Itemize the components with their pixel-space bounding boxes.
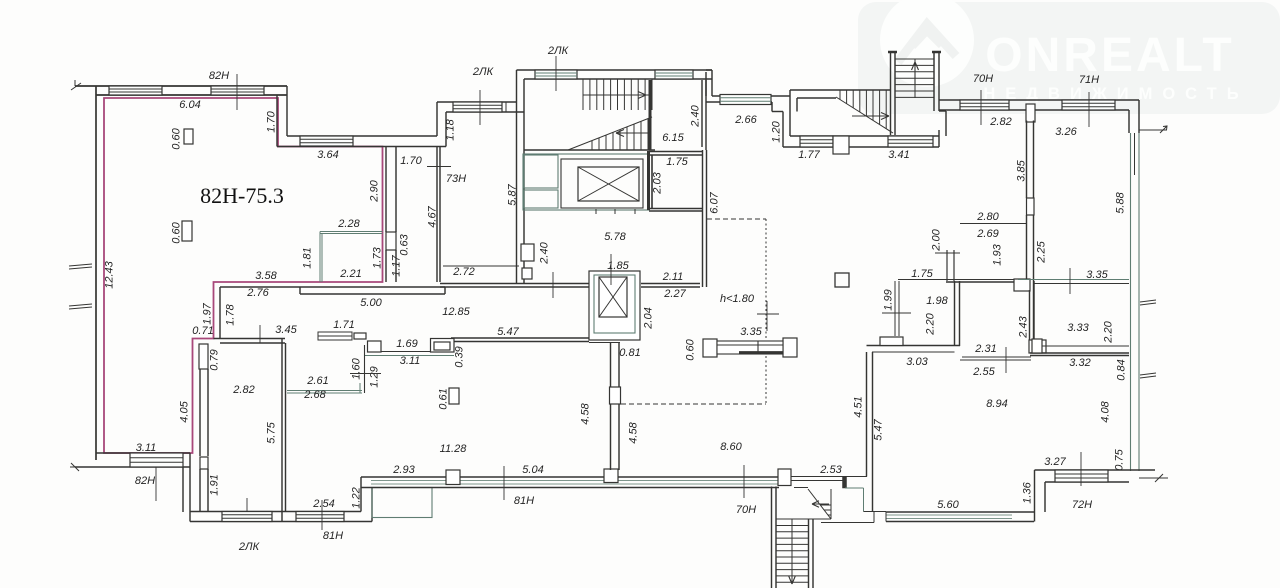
pier y281 [1014, 279, 1030, 291]
room 2.31 walls [1029, 290, 1031, 340]
dim tick 2LK-1 [479, 90, 481, 125]
tick 81H [503, 466, 505, 500]
door rect 0.63 [386, 232, 396, 250]
elevator1 bottom ticks [595, 209, 597, 214]
closet walls 2.28 [320, 231, 383, 233]
room 2.82 top wall [214, 338, 286, 340]
svg-text:5.00: 5.00 [360, 297, 382, 309]
counter thick line [739, 351, 783, 354]
stair5 walls [771, 487, 773, 588]
room 2.82 west wall + doors [219, 287, 221, 339]
room 2.31 sill top [962, 356, 1031, 358]
svg-text:1.97: 1.97 [202, 302, 214, 324]
path to 5.60 band [845, 487, 864, 489]
tick 1.85 [610, 254, 612, 285]
svg-text:1.29: 1.29 [369, 366, 381, 387]
dim tick 71H [1088, 92, 1090, 127]
svg-text:3.26: 3.26 [1055, 126, 1077, 138]
vent rect lower [182, 221, 192, 241]
svg-text:81Н: 81Н [323, 530, 343, 542]
svg-text:1.91: 1.91 [209, 474, 221, 495]
svg-text:2.54: 2.54 [312, 498, 334, 510]
wall 2.80 [960, 223, 1027, 225]
stair4 up arrow [912, 62, 919, 85]
svg-text:3.64: 3.64 [317, 149, 338, 161]
svg-text:5.04: 5.04 [522, 464, 543, 476]
svg-text:2.55: 2.55 [972, 366, 995, 378]
svg-text:2.43: 2.43 [1018, 315, 1030, 338]
notch west of stair1 [505, 102, 507, 112]
svg-text:12.43: 12.43 [104, 260, 116, 288]
svg-text:0.39: 0.39 [454, 346, 466, 367]
wall 72H top [1035, 469, 1156, 471]
window 2.66 [720, 95, 771, 105]
right wall ticks [1140, 300, 1156, 305]
svg-text:73Н: 73Н [446, 173, 466, 185]
svg-text:0.60: 0.60 [171, 221, 183, 243]
tick 1.99 [882, 312, 911, 314]
svg-text:71Н: 71Н [1079, 74, 1099, 86]
band 5.60 [886, 511, 1034, 513]
room 1.75/2.03 walls [649, 151, 703, 153]
stair3 diagonal [836, 97, 893, 133]
svg-text:2.11: 2.11 [662, 271, 684, 283]
svg-text:0.81: 0.81 [619, 347, 640, 359]
bottom band 2LK [190, 511, 361, 513]
stair5 return flight [808, 489, 831, 519]
closet 2.61 teal [287, 390, 362, 392]
watermark logo circle [880, 0, 974, 87]
svg-text:0.79: 0.79 [209, 349, 221, 370]
svg-text:3.45: 3.45 [275, 324, 297, 336]
svg-text:5.88: 5.88 [1115, 191, 1127, 213]
step 1.20 [771, 102, 773, 112]
tick 2.31/2.55 [1005, 347, 1007, 373]
rect 0.39 outer [431, 339, 455, 353]
window top-1 [109, 86, 162, 95]
svg-text:1.36: 1.36 [1022, 481, 1034, 503]
dim tick 82H top [236, 74, 238, 110]
svg-text:0.63: 0.63 [399, 233, 411, 255]
svg-text:2.90: 2.90 [369, 179, 381, 202]
stair1 bottom line [524, 149, 655, 151]
svg-text:4.58: 4.58 [628, 421, 640, 443]
arrow bottom-left [70, 463, 79, 471]
svg-text:1.71: 1.71 [333, 319, 354, 331]
82H bottom wall [96, 452, 190, 454]
door rect 0.79 [199, 344, 208, 369]
stair3 enclosure [790, 89, 890, 91]
elevator2 outer [589, 271, 640, 340]
svg-text:2.28: 2.28 [337, 218, 360, 230]
svg-text:2.03: 2.03 [652, 171, 664, 194]
window 2LK-1 [453, 102, 502, 112]
pier 2.31 SE [1029, 340, 1046, 353]
wall 5.47 [451, 337, 589, 339]
svg-text:1.70: 1.70 [266, 110, 278, 132]
window 2LK bottom-1 [222, 512, 272, 522]
svg-text:2.68: 2.68 [303, 389, 326, 401]
wall 3.35 teal [1018, 279, 1129, 281]
svg-text:0.60: 0.60 [171, 127, 183, 149]
wall y281 [898, 279, 1030, 281]
svg-text:2.20: 2.20 [1103, 320, 1115, 343]
tick 3.45 [259, 325, 261, 343]
svg-text:4.58: 4.58 [580, 402, 592, 424]
svg-text:5.78: 5.78 [604, 231, 626, 243]
svg-text:6.04: 6.04 [179, 99, 200, 111]
svg-text:h<1.80: h<1.80 [720, 293, 755, 305]
pier 1.18 [436, 102, 438, 136]
tick 2.54 [321, 500, 323, 530]
svg-text:82Н-75.3: 82Н-75.3 [200, 183, 284, 208]
svg-text:6.15: 6.15 [662, 132, 684, 144]
stair1 landing line [583, 94, 652, 96]
stair5 arrow [812, 501, 829, 507]
dashed line right [765, 219, 767, 339]
window 2LK top-1 [535, 70, 577, 79]
svg-text:0.75: 0.75 [1114, 448, 1126, 470]
svg-text:8.94: 8.94 [986, 398, 1007, 410]
right step corner [1128, 110, 1130, 133]
svg-text:5.60: 5.60 [937, 499, 959, 511]
wall x1026 (3.85) [1026, 121, 1028, 199]
svg-text:1.20: 1.20 [771, 120, 783, 142]
step wall right of unit [286, 86, 288, 136]
right wall pier top [1134, 133, 1136, 175]
svg-text:2.04: 2.04 [643, 307, 655, 329]
shaft compartments left of elevator1 [524, 155, 558, 188]
door rect 3.85 wall [1027, 198, 1035, 215]
svg-text:2.93: 2.93 [392, 464, 415, 476]
svg-text:5.75: 5.75 [266, 421, 278, 443]
band piers [446, 470, 460, 485]
wall x700 (6.07) [702, 150, 704, 287]
room 6.15 walls [701, 80, 703, 147]
svg-text:70Н: 70Н [736, 504, 756, 516]
elevator2 X box [599, 277, 627, 317]
svg-text:72Н: 72Н [1072, 499, 1092, 511]
svg-text:1.75: 1.75 [911, 268, 933, 280]
right outer wall (double) [1130, 133, 1132, 471]
svg-text:2.40: 2.40 [539, 241, 551, 264]
wall 4.51 [866, 352, 868, 477]
pier on 4.58 wall [610, 387, 621, 404]
svg-text:2ЛК: 2ЛК [472, 66, 494, 78]
elevator1 X box [578, 167, 639, 201]
pier 70H/71H [1026, 104, 1035, 122]
pier 3.03 [880, 337, 903, 346]
wall y96 run 2.66 [712, 95, 790, 97]
svg-text:2.69: 2.69 [976, 228, 998, 240]
rect 0.61 [449, 388, 459, 404]
wall 3.33/3.32 [1042, 345, 1129, 347]
dim tick 70H [980, 90, 982, 125]
pier between windows [833, 136, 849, 154]
top wall right section [939, 99, 1139, 101]
stair3 bottom wall outer [790, 135, 939, 137]
svg-text:2.20: 2.20 [925, 312, 937, 335]
thin wall 1.69/3.11 [381, 351, 430, 353]
outer wall: top-left unit [75, 85, 287, 87]
svg-text:2.61: 2.61 [306, 375, 328, 387]
window 1.77 [800, 136, 833, 147]
svg-text:2.80: 2.80 [976, 211, 999, 223]
small rect in sill [354, 333, 366, 339]
sill 1.71 [318, 332, 352, 340]
stair1/6.15 divider thick [649, 80, 652, 150]
stair4 walls (71H upper) [890, 52, 892, 135]
stair1 lower flight diagonal [568, 117, 652, 150]
vent rect upper [184, 129, 193, 144]
loggia rect below band [372, 488, 432, 518]
svg-text:8.60: 8.60 [720, 441, 742, 453]
wall y102 [437, 101, 517, 103]
stair3 arrow right [852, 113, 889, 120]
dim cross 3.35 [766, 301, 768, 331]
svg-text:2.76: 2.76 [246, 287, 269, 299]
window top-2 [211, 86, 264, 95]
svg-text:82Н: 82Н [135, 475, 155, 487]
rect 0.39 inner [434, 342, 450, 350]
svg-text:2.66: 2.66 [734, 114, 757, 126]
corridor 2.53 walls [791, 476, 867, 478]
dashed line top [707, 218, 766, 220]
dim tick 2LK-2 [555, 56, 557, 91]
window 2LK bottom-2 [296, 512, 344, 522]
wall x954-960 (1.98 room east) [954, 281, 956, 346]
room 2.82 east wall [281, 339, 283, 521]
window 3.11 bottom [130, 453, 183, 467]
tick 72H [1080, 452, 1082, 486]
svg-text:4.51: 4.51 [853, 396, 865, 417]
svg-text:2.72: 2.72 [452, 266, 474, 278]
svg-text:1.18: 1.18 [445, 118, 457, 140]
wall 3.03 [867, 345, 961, 347]
tick 82H bottom [155, 467, 157, 501]
svg-text:1.93: 1.93 [992, 243, 1004, 265]
svg-text:3.33: 3.33 [1067, 322, 1089, 334]
svg-text:2.31: 2.31 [974, 343, 996, 355]
svg-text:81Н: 81Н [514, 495, 534, 507]
svg-text:1.75: 1.75 [666, 156, 688, 168]
svg-text:1.98: 1.98 [926, 295, 948, 307]
svg-text:1.73: 1.73 [372, 246, 384, 268]
svg-text:3.03: 3.03 [906, 356, 928, 368]
stair1 arrow right [590, 92, 646, 99]
wall 73H west with door [385, 147, 387, 232]
elevator1 outer [523, 154, 649, 210]
dim arrow right bottom [1139, 477, 1168, 479]
elevator1 east thick bar [647, 151, 650, 210]
svg-text:4.67: 4.67 [427, 205, 439, 227]
stair5 landing line [776, 518, 831, 520]
wall end block [843, 477, 847, 488]
stair5 center line [791, 519, 793, 584]
window 3.27 [1055, 470, 1108, 482]
svg-text:ONREALT: ONREALT [985, 29, 1234, 82]
stair3 treads [839, 90, 841, 100]
svg-text:3.41: 3.41 [888, 149, 909, 161]
svg-text:82Н: 82Н [209, 70, 229, 82]
svg-text:3.32: 3.32 [1069, 357, 1090, 369]
svg-text:3.27: 3.27 [1044, 456, 1066, 468]
wall 4.58 divider [610, 343, 612, 471]
stair1 treads upper flight [582, 79, 584, 110]
stair5 treads [776, 525, 809, 527]
svg-text:70Н: 70Н [973, 73, 993, 85]
unit 82H-75.3 magenta boundary [104, 98, 383, 453]
tick 1.60/1.29 [350, 373, 381, 375]
wall under magenta 2.76 room [220, 286, 300, 288]
svg-text:0.71: 0.71 [192, 325, 213, 337]
svg-text:2.25: 2.25 [1036, 240, 1048, 263]
svg-text:2.00: 2.00 [931, 228, 943, 251]
tick corridor [552, 272, 554, 298]
window 3.41 [888, 136, 933, 147]
door rect 1.91 [200, 457, 208, 469]
step wall east of 6.15 [706, 69, 712, 71]
svg-text:5.47: 5.47 [873, 418, 885, 440]
left wall ticks [69, 264, 92, 269]
room 2.31 sill bottom [960, 359, 1031, 361]
svg-text:4.08: 4.08 [1100, 400, 1112, 422]
svg-text:1.81: 1.81 [302, 247, 314, 268]
arrow right corner [1160, 126, 1167, 133]
wall 3.35 black [1034, 283, 1130, 285]
wall below elevator2 [589, 342, 620, 344]
dashed line bottom [621, 403, 766, 405]
pier 3.33 west [1032, 339, 1042, 353]
svg-text:3.35: 3.35 [740, 326, 762, 338]
step 1.36 [1034, 470, 1036, 522]
svg-text:4.05: 4.05 [179, 400, 191, 422]
shaft door rect [521, 244, 534, 261]
svg-text:2ЛК: 2ЛК [238, 541, 260, 553]
stair1 arrow left [616, 130, 648, 137]
link to 70H wall [939, 110, 946, 112]
window 3.64 [300, 136, 353, 146]
column [835, 273, 849, 287]
tick 2LK bottom [246, 498, 248, 512]
svg-text:3.11: 3.11 [136, 442, 157, 454]
closet east wall [364, 345, 366, 393]
svg-text:1.70: 1.70 [400, 155, 422, 167]
svg-text:2.53: 2.53 [819, 464, 842, 476]
shaft small rect [522, 268, 532, 279]
stair1 enclosure [517, 69, 713, 71]
step 1.22 [360, 477, 362, 512]
tick 73H [427, 166, 451, 168]
svg-text:6.07: 6.07 [709, 191, 721, 213]
svg-text:5.87: 5.87 [507, 183, 519, 205]
svg-text:0.60: 0.60 [685, 338, 697, 360]
svg-text:1.69: 1.69 [396, 338, 417, 350]
parapet 5.00 [300, 286, 445, 288]
svg-text:1.77: 1.77 [798, 149, 820, 161]
dim line 2.72 [443, 265, 519, 267]
counter 3.35 [703, 339, 717, 357]
svg-text:1.78: 1.78 [225, 303, 237, 325]
stair5 arrow down [789, 576, 796, 584]
pier square 1.71 [368, 341, 382, 352]
corridor 73H east wall [436, 147, 438, 282]
window 2LK top-2 [655, 70, 693, 79]
wall x947-954 [946, 250, 948, 281]
svg-text:12.85: 12.85 [442, 306, 470, 318]
svg-text:2.82: 2.82 [232, 384, 254, 396]
svg-text:2.27: 2.27 [663, 288, 686, 300]
svg-text:1.60: 1.60 [351, 357, 363, 379]
svg-text:0.61: 0.61 [438, 388, 450, 409]
tick 2.00 [935, 252, 960, 254]
south band outer lines [361, 476, 779, 478]
stair4 treads [895, 58, 934, 60]
tick 3.35 right [1069, 268, 1071, 294]
window 71H [1062, 100, 1115, 110]
corridor top wall [440, 283, 589, 285]
svg-text:3.11: 3.11 [400, 355, 421, 367]
watermark backdrop [858, 2, 1280, 114]
svg-text:2.82: 2.82 [989, 116, 1011, 128]
dim arrow top-left corner [71, 80, 81, 90]
svg-text:11.28: 11.28 [440, 443, 468, 455]
stair3 bottom wall inner [783, 146, 939, 148]
stair4 center line [914, 59, 916, 98]
wall x895 (1.99) [894, 281, 896, 336]
svg-text:2.21: 2.21 [339, 268, 361, 280]
step down west [182, 467, 184, 512]
svg-text:3.85: 3.85 [1016, 159, 1028, 181]
tick 70H [743, 465, 745, 498]
svg-text:0.84: 0.84 [1116, 359, 1128, 380]
svg-text:1.99: 1.99 [883, 289, 895, 310]
window 70H [960, 100, 1009, 110]
svg-text:2ЛК: 2ЛК [547, 45, 569, 57]
svg-text:3.58: 3.58 [255, 270, 277, 282]
svg-text:5.47: 5.47 [497, 326, 519, 338]
wall y136 east run [287, 135, 437, 137]
svg-text:2.40: 2.40 [690, 104, 702, 127]
